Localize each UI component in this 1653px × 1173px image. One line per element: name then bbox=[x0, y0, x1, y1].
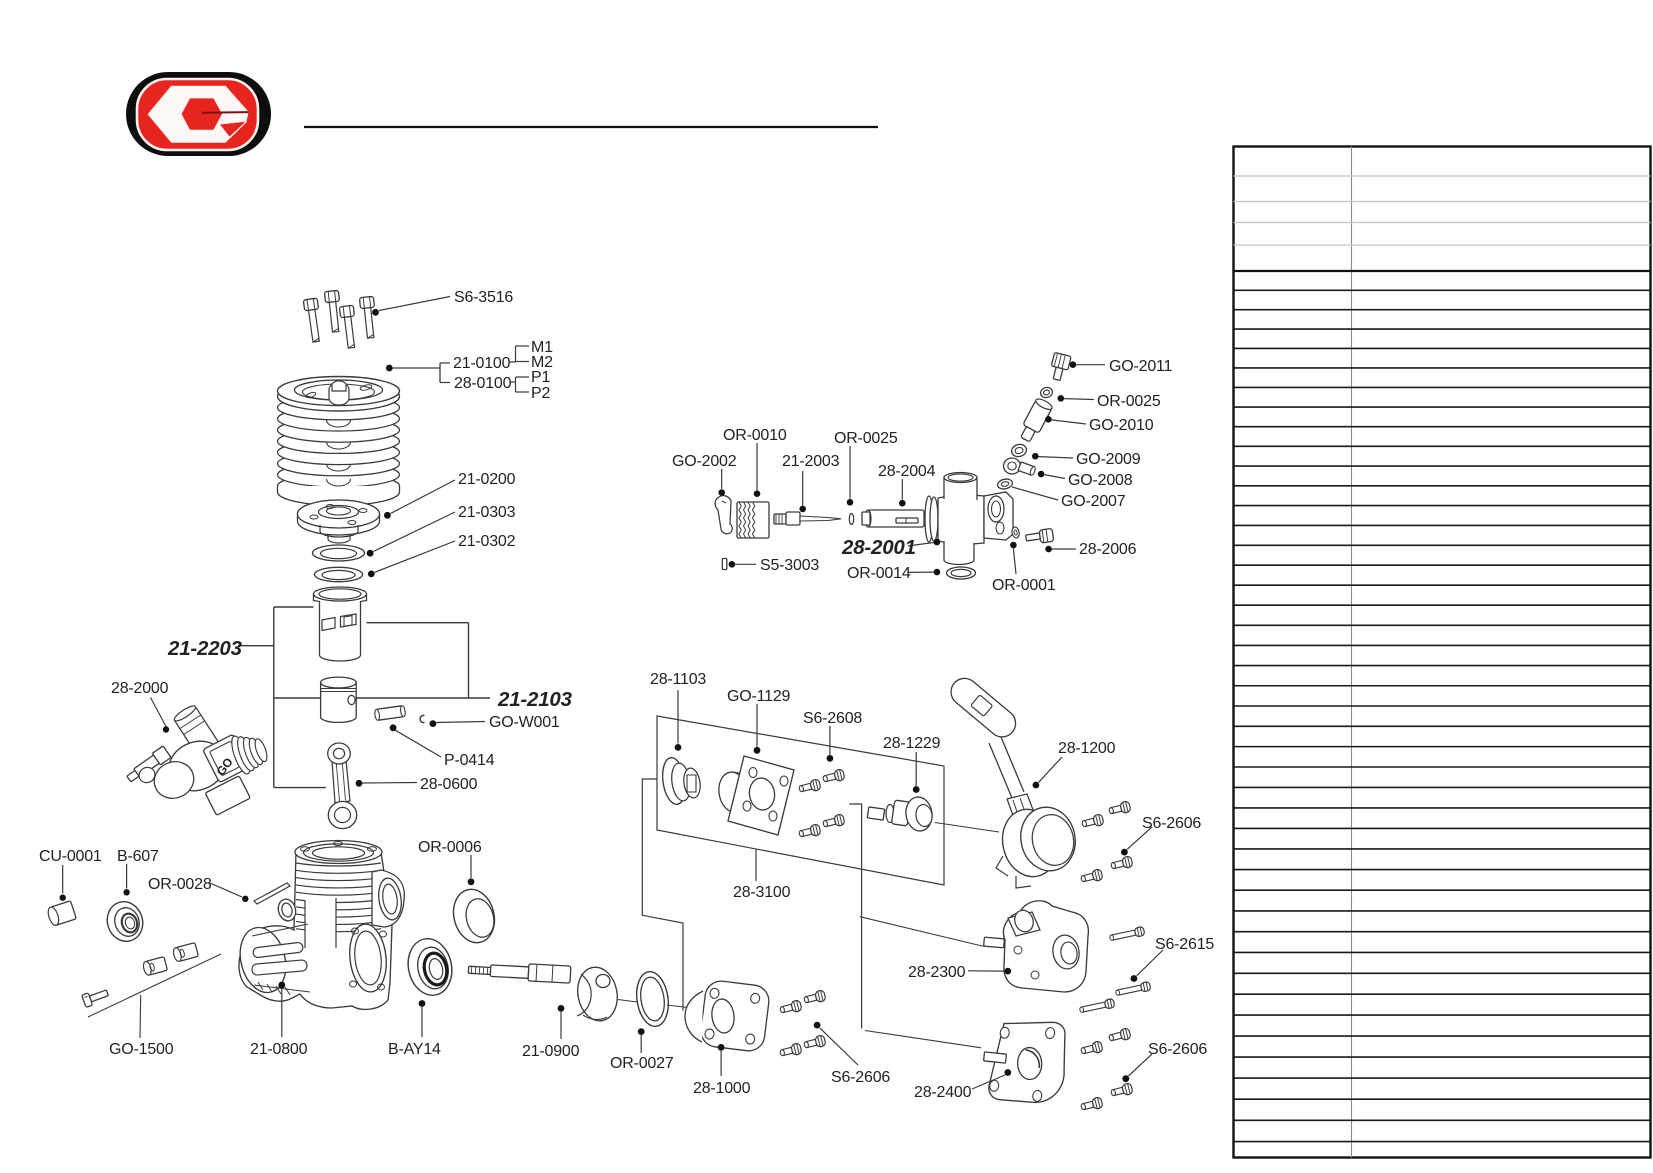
svg-text:21-0302: 21-0302 bbox=[458, 533, 516, 550]
gasket 21-0302 bbox=[315, 567, 363, 581]
label 21-0303 dot+leader bbox=[367, 550, 374, 557]
carburetor assembly 28-2000 bbox=[172, 704, 220, 759]
svg-text:B-AY14: B-AY14 bbox=[388, 1041, 441, 1058]
screws GO-1500 group bbox=[82, 987, 110, 1008]
svg-text:OR-0028: OR-0028 bbox=[148, 876, 212, 893]
header rule bbox=[304, 126, 878, 128]
label S6-3516 leader bbox=[379, 297, 450, 311]
cylinder sleeve 21-2203 bbox=[314, 594, 367, 661]
carb mount GO-1129 bbox=[716, 770, 749, 814]
svg-text:21-0303: 21-0303 bbox=[458, 504, 516, 521]
svg-text:GO-2009: GO-2009 bbox=[1076, 451, 1141, 468]
svg-text:GO-2011: GO-2011 bbox=[1109, 358, 1173, 375]
o-ring OR-0014 bbox=[947, 567, 976, 579]
svg-text:28-2004: 28-2004 bbox=[878, 463, 936, 480]
svg-text:21-2203: 21-2203 bbox=[167, 637, 243, 660]
label GO-2002 leader bbox=[721, 469, 723, 489]
label 28-2000 leader bbox=[151, 698, 167, 727]
fuel nipple GO-2010 bbox=[1017, 397, 1053, 444]
svg-text:S6-2606: S6-2606 bbox=[1142, 815, 1201, 832]
carburetor body 28-2001 bbox=[925, 496, 933, 542]
svg-text:21-2003: 21-2003 bbox=[782, 453, 840, 470]
screw S6-3516 #4 bbox=[359, 296, 377, 338]
label 28-2001 leader bbox=[908, 543, 934, 547]
label 21-0200 dot+leader bbox=[384, 512, 391, 519]
label OR-0028 leader bbox=[210, 883, 242, 897]
pin S5-3003 bbox=[722, 559, 727, 570]
svg-text:28-3100: 28-3100 bbox=[733, 884, 791, 901]
starter shaft 28-1229 bbox=[867, 807, 884, 820]
label CU-0001 leader bbox=[62, 865, 64, 894]
svg-text:28-0100: 28-0100 bbox=[454, 375, 512, 392]
front cover 28-1000 bbox=[699, 979, 771, 1052]
svg-text:S6-2606: S6-2606 bbox=[831, 1069, 890, 1086]
logo G notch red wedge bbox=[220, 122, 246, 137]
svg-text:GO-2002: GO-2002 bbox=[672, 453, 737, 470]
svg-text:21-2103: 21-2103 bbox=[497, 688, 573, 711]
svg-text:S6-2608: S6-2608 bbox=[803, 710, 862, 727]
svg-text:28-1000: 28-1000 bbox=[693, 1080, 751, 1097]
label GO-1500 leader bbox=[139, 995, 142, 1038]
bracket P1P2 bbox=[511, 381, 516, 383]
label 28-1229 leader bbox=[915, 752, 917, 786]
svg-text:28-2300: 28-2300 bbox=[908, 964, 966, 981]
crankshaft 21-0900 bbox=[468, 961, 571, 983]
boot OR-0010 bbox=[737, 502, 769, 538]
label 28-0600 dot+leader bbox=[356, 780, 363, 787]
needle valve GO-2011 bbox=[1048, 352, 1071, 381]
label B-AY14 leader bbox=[419, 1000, 426, 1007]
label S6-2606 br leader bbox=[1122, 1075, 1129, 1082]
svg-text:OR-0025: OR-0025 bbox=[834, 430, 898, 447]
svg-text:P2: P2 bbox=[531, 385, 550, 402]
label OR-0025 r leader bbox=[1058, 395, 1065, 402]
label GO-2011 leader bbox=[1070, 361, 1077, 368]
axis 28-1229 to recoil bbox=[935, 823, 999, 833]
label S6-3516 dot bbox=[372, 309, 379, 316]
head button 21-0200 bbox=[298, 500, 380, 535]
label GO-2008 leader bbox=[1038, 471, 1045, 478]
label 28-1200 leader bbox=[1033, 782, 1040, 789]
svg-text:21-0800: 21-0800 bbox=[250, 1041, 308, 1058]
plug CU-0001 bbox=[46, 901, 76, 927]
logo G glyph white bbox=[148, 86, 249, 143]
label B-607 leader bbox=[126, 864, 128, 889]
svg-text:OR-0010: OR-0010 bbox=[723, 427, 787, 444]
svg-text:OR-0001: OR-0001 bbox=[992, 577, 1056, 594]
svg-text:28-2001: 28-2001 bbox=[841, 536, 916, 559]
label S6-2615 leader bbox=[1131, 975, 1138, 982]
idle screw 28-2006 bbox=[1026, 533, 1041, 541]
conrod 28-0600 bbox=[332, 760, 350, 803]
label OR-0025 l leader bbox=[849, 446, 851, 499]
label 28-2000 dot bbox=[163, 726, 169, 732]
label S6-2606 mid leader bbox=[1121, 849, 1128, 856]
svg-text:B-607: B-607 bbox=[117, 848, 159, 865]
svg-text:S6-2615: S6-2615 bbox=[1155, 936, 1214, 953]
label 28-2300 leader bbox=[1004, 968, 1011, 975]
svg-text:28-1229: 28-1229 bbox=[883, 735, 941, 752]
head bracket dot bbox=[386, 365, 393, 372]
svg-text:OR-0014: OR-0014 bbox=[847, 565, 911, 582]
bracket 21-2203 bbox=[273, 607, 275, 788]
svg-text:GO-2007: GO-2007 bbox=[1061, 493, 1126, 510]
cooling head 21-0100 bbox=[278, 474, 400, 498]
ring GO-2009 bbox=[1010, 443, 1028, 458]
svg-text:OR-0027: OR-0027 bbox=[610, 1055, 674, 1072]
svg-text:OR-0006: OR-0006 bbox=[418, 839, 482, 856]
svg-text:GO-1500: GO-1500 bbox=[109, 1041, 174, 1058]
label OR-0006 leader bbox=[470, 855, 472, 878]
o-ring OR-0025 left bbox=[849, 514, 853, 525]
label 28-1000 leader bbox=[718, 1044, 725, 1051]
panel 28-3100 outline bbox=[657, 716, 944, 885]
o-ring OR-0027 bbox=[633, 970, 671, 1029]
svg-text:S6-2606: S6-2606 bbox=[1148, 1041, 1207, 1058]
svg-text:GO-W001: GO-W001 bbox=[489, 714, 560, 731]
screws S6-2606 bottom-right group bbox=[1108, 1028, 1131, 1044]
svg-text:GO-1129: GO-1129 bbox=[727, 688, 791, 705]
screws S6-2606 mid group bbox=[1108, 801, 1131, 817]
label 21-0800 leader bbox=[278, 982, 285, 989]
label 28-1103 leader bbox=[677, 690, 679, 744]
label GO-2007 leader bbox=[1012, 487, 1058, 500]
logo GO oval outer bbox=[126, 72, 271, 156]
svg-text:28-2006: 28-2006 bbox=[1079, 541, 1137, 558]
label S5-3003 leader bbox=[729, 561, 736, 568]
bracket 21-2103 bbox=[367, 622, 469, 624]
clip GO-W001 bbox=[420, 715, 424, 722]
o-ring OR-0006 bbox=[448, 885, 500, 947]
svg-text:21-0200: 21-0200 bbox=[458, 471, 516, 488]
svg-text:28-2000: 28-2000 bbox=[111, 680, 169, 697]
label S6-2608 leader bbox=[829, 726, 831, 755]
svg-text:CU-0001: CU-0001 bbox=[39, 848, 102, 865]
svg-text:GO-2008: GO-2008 bbox=[1068, 472, 1133, 489]
label 28-2004 leader bbox=[901, 479, 903, 500]
svg-text:P-0414: P-0414 bbox=[444, 752, 495, 769]
wrist pin P-0414 bbox=[374, 705, 406, 720]
collet 28-1103 bbox=[660, 756, 688, 806]
washer OR-0001 bbox=[1011, 526, 1020, 538]
svg-text:28-1200: 28-1200 bbox=[1058, 740, 1116, 757]
banjo GO-2008 bbox=[1004, 458, 1021, 474]
svg-text:OR-0025: OR-0025 bbox=[1097, 393, 1161, 410]
label GO-2010 leader bbox=[1045, 416, 1052, 423]
label P-0414 dot+leader bbox=[390, 724, 397, 731]
bearing B-607 bbox=[102, 897, 148, 946]
label OR-0014 leader bbox=[934, 569, 941, 576]
label 28-2006 leader bbox=[1045, 546, 1052, 553]
svg-text:21-0900: 21-0900 bbox=[522, 1043, 580, 1060]
label 21-2003 leader bbox=[802, 471, 804, 505]
label GO-2009 leader bbox=[1032, 453, 1039, 460]
logo red field bbox=[137, 79, 258, 150]
label GO-W001 dot+leader bbox=[430, 720, 437, 727]
label OR-0027 leader bbox=[638, 1028, 645, 1035]
svg-text:S6-3516: S6-3516 bbox=[454, 289, 513, 306]
crankcase 21-0800 bbox=[239, 852, 392, 1009]
label OR-0010 leader bbox=[756, 443, 758, 490]
bracket M1M2 bbox=[510, 361, 516, 363]
fuel pump 28-2300 bbox=[1003, 901, 1088, 992]
screws S6-2615 group bbox=[1109, 926, 1145, 942]
pump backplate 28-2400 bbox=[987, 1015, 1071, 1108]
throttle arm GO-2002 bbox=[715, 496, 732, 534]
throttle barrel 28-2004 bbox=[868, 510, 924, 527]
axis crank to o-ring bbox=[618, 1000, 637, 1003]
bearing B-AY14 bbox=[403, 935, 457, 1000]
label S6-2606 ll leader bbox=[814, 1022, 821, 1029]
svg-text:P1: P1 bbox=[531, 369, 550, 386]
panel connector left bbox=[642, 779, 683, 1011]
svg-text:21-0100: 21-0100 bbox=[453, 355, 511, 372]
axis to 28-2400 bbox=[865, 1031, 981, 1048]
needle 21-2003 bbox=[774, 514, 786, 524]
label 21-0302 dot+leader bbox=[368, 571, 375, 578]
label 28-2400 leader bbox=[1004, 1069, 1011, 1076]
screw S6-3516 #2 bbox=[324, 290, 342, 332]
svg-text:S5-3003: S5-3003 bbox=[760, 557, 819, 574]
svg-text:GO-2010: GO-2010 bbox=[1089, 417, 1154, 434]
GO-1500 axis line bbox=[88, 954, 221, 1017]
panel connector right bbox=[849, 804, 861, 1028]
label 21-0900 leader bbox=[558, 1005, 565, 1012]
parts table grid bbox=[1234, 147, 1651, 1158]
recoil starter 28-1200 bbox=[946, 673, 1022, 743]
label 28-3100 leader bbox=[755, 849, 757, 881]
gasket 21-0303 bbox=[313, 545, 365, 561]
screws S6-2606 lower-left group bbox=[779, 1000, 802, 1016]
head bracket lines bbox=[393, 367, 440, 369]
screws S6-2608 group bbox=[798, 779, 821, 795]
washer GO-2007 bbox=[997, 478, 1014, 491]
svg-text:28-1103: 28-1103 bbox=[650, 671, 706, 688]
svg-text:28-2400: 28-2400 bbox=[914, 1084, 972, 1101]
axis to 28-2300 bbox=[860, 917, 984, 947]
label OR-0001 leader bbox=[1010, 542, 1017, 549]
logo G bar slit bbox=[202, 111, 249, 114]
piston 21-2103 bbox=[321, 683, 357, 723]
o-ring OR-0025 right bbox=[1039, 386, 1053, 399]
screw S6-3516 #3 bbox=[339, 305, 358, 348]
screw S6-3516 #1 bbox=[303, 298, 323, 343]
axis o-ring to cover bbox=[667, 1005, 700, 1009]
svg-text:28-0600: 28-0600 bbox=[420, 776, 478, 793]
label GO-1129 leader bbox=[756, 704, 758, 747]
